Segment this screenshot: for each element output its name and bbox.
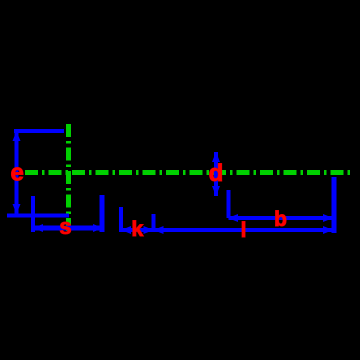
svg-text:d: d bbox=[209, 160, 224, 187]
dimension line e bbox=[15, 131, 19, 215]
dimension line k and l bbox=[119, 228, 333, 232]
svg-text:s: s bbox=[59, 214, 71, 239]
extension line k right l left bbox=[152, 214, 156, 232]
extension line s right bbox=[100, 195, 105, 232]
horizontal centerline bbox=[25, 170, 350, 175]
svg-text:l: l bbox=[241, 219, 247, 242]
svg-text:b: b bbox=[274, 208, 287, 231]
label s bbox=[59, 214, 71, 239]
arrowhead k right bbox=[144, 226, 154, 234]
extension line b left bbox=[227, 190, 231, 218]
arrowhead k left bbox=[121, 226, 131, 234]
extension line k left bbox=[119, 207, 123, 232]
extension line e bottom bbox=[7, 214, 69, 218]
label b bbox=[274, 208, 287, 231]
label l bbox=[241, 219, 247, 242]
arrowhead e down bbox=[13, 204, 21, 214]
dimension line b bbox=[229, 216, 334, 220]
dimension line d bbox=[214, 152, 218, 196]
label e bbox=[11, 160, 24, 187]
arrowhead l right bbox=[323, 226, 333, 234]
svg-text:k: k bbox=[131, 217, 143, 241]
svg-text:e: e bbox=[11, 160, 24, 187]
extension line s left bbox=[31, 196, 35, 232]
arrowhead d up bbox=[212, 152, 220, 162]
vertical centerline bbox=[66, 124, 71, 235]
label k bbox=[131, 217, 143, 241]
arrowhead s right bbox=[93, 224, 103, 232]
extension line right end bbox=[332, 177, 337, 233]
arrowhead b left bbox=[228, 214, 238, 222]
dimension line s bbox=[33, 226, 103, 231]
arrowhead s left bbox=[33, 224, 43, 232]
arrowhead d down bbox=[212, 186, 220, 196]
label d bbox=[209, 160, 224, 187]
arrowhead b right bbox=[323, 214, 333, 222]
arrowhead l left bbox=[154, 226, 164, 234]
extension line e top bbox=[14, 129, 64, 133]
arrowhead e up bbox=[13, 131, 21, 141]
